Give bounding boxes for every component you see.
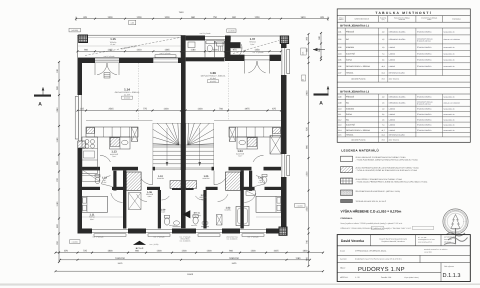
svg-text:1410: 1410 — [136, 48, 142, 51]
svg-text:Kreslil:: Kreslil: — [340, 250, 346, 253]
title block bottom row meritko — [340, 276, 419, 279]
svg-text:41,7m²: 41,7m² — [124, 93, 130, 96]
door arc bedroom 1.13 — [244, 193, 256, 203]
svg-text:(±0,000): (±0,000) — [124, 97, 131, 100]
WC 1.12 wall vertical left unit — [113, 171, 116, 191]
svg-text:1,9: 1,9 — [382, 46, 384, 49]
north block top wall seg2 — [225, 36, 231, 41]
svg-text:1250: 1250 — [254, 16, 260, 19]
room label 1.13 kuchyne — [110, 151, 119, 159]
svg-text:1.14: 1.14 — [124, 88, 130, 92]
outer wall left lower — [78, 148, 83, 234]
table row 1.02 — [337, 35, 470, 44]
table header row — [337, 16, 470, 23]
entry door arc room 1.07 — [231, 44, 242, 58]
svg-text:1180: 1180 — [191, 48, 197, 51]
svg-text:A: A — [319, 100, 323, 106]
svg-text:CELKEM PLOCHA: CELKEM PLOCHA — [351, 78, 366, 81]
svg-text:1 : 50: 1 : 50 — [355, 276, 360, 279]
interior wall right stub — [212, 167, 215, 171]
room label 1.06 obyvaci pokoj — [201, 71, 226, 83]
table row celkem plocha — [337, 76, 470, 83]
toilet small right unit wc — [262, 174, 267, 183]
svg-text:(±0,000): (±0,000) — [71, 29, 78, 32]
svg-text:1500: 1500 — [107, 16, 113, 19]
svg-text:225: 225 — [302, 52, 305, 55]
svg-text:BYTOVÁ JEDNOTKA č.1: BYTOVÁ JEDNOTKA č.1 — [340, 23, 370, 27]
north block top wall seg1 — [186, 36, 205, 41]
table row 1.03 — [337, 44, 470, 51]
main top wall right unit seg2 — [270, 55, 282, 61]
washer right unit — [217, 215, 223, 226]
room label 1.10 chodba — [157, 175, 165, 180]
svg-text:1,5: 1,5 — [382, 38, 384, 41]
svg-text:1975: 1975 — [244, 108, 250, 111]
party wall center — [181, 35, 186, 228]
table row 1.06 — [337, 63, 470, 70]
outer wall left upper — [78, 58, 83, 95]
svg-text:- TYČNA S ODOLNĚJŠÍ, ZDĚNÉ NA: - TYČNA S ODOLNĚJŠÍ, ZDĚNÉ NA TENKOVRSTV… — [356, 169, 418, 172]
shaft hatched under stair right — [186, 181, 197, 189]
sill label bottom 4 — [226, 235, 239, 240]
svg-text:1420: 1420 — [163, 108, 169, 111]
closets along left wall — [82, 170, 99, 182]
table gap row — [337, 86, 470, 88]
svg-text:PŘEDSÍŇ: PŘEDSÍŇ — [346, 96, 355, 99]
svg-text:LINOLEUM čes.: LINOLEUM čes. — [226, 235, 239, 238]
toilet left bath — [164, 216, 169, 226]
bathtub right unit 1.03 — [236, 207, 249, 226]
door arc kitchen left — [100, 155, 110, 162]
svg-text:1485: 1485 — [107, 48, 113, 51]
bottom wall seg1 — [78, 229, 93, 234]
door arc bottom hall left — [137, 194, 147, 201]
svg-text:1200: 1200 — [181, 250, 187, 253]
dimension chain bottom 3 — [55, 270, 325, 276]
svg-text:1.05: 1.05 — [204, 175, 209, 178]
svg-text:1810: 1810 — [300, 16, 306, 19]
table row 1.07 — [337, 69, 470, 75]
dimension chain bottom 1 — [55, 250, 325, 254]
dashed beam vertical 1.06 — [228, 63, 230, 121]
level mark +0,020 porch — [227, 29, 236, 33]
svg-text:7,4: 7,4 — [382, 52, 384, 55]
bottom wall seg3 center — [172, 229, 196, 234]
svg-text:ŠATNA: ŠATNA — [346, 59, 353, 62]
roof overhang dashed line left — [85, 38, 180, 56]
outer wall right window upper — [282, 48, 290, 75]
svg-text:LEGENDA MATERIÁLŮ: LEGENDA MATERIÁLŮ — [341, 148, 379, 152]
svg-text:1.10: 1.10 — [338, 108, 342, 111]
wall bedroom divider right x241 — [240, 170, 243, 228]
svg-text:MĚŘÍTKO:: MĚŘÍTKO: — [340, 276, 349, 279]
svg-text:nad 1V přesah: nad 1V přesah — [200, 32, 211, 35]
svg-text:(-0,020): (-0,020) — [297, 204, 303, 207]
dimension chain upper second — [77, 48, 283, 52]
legend item bourane konstrukce — [341, 190, 401, 196]
svg-text:13,4m²: 13,4m² — [110, 43, 116, 46]
svg-text:1.05: 1.05 — [131, 22, 135, 25]
basin right bath — [201, 221, 209, 227]
bottom window left bedroom — [92, 229, 128, 236]
micro chain bottom interior right — [256, 216, 281, 218]
outer wall right seg2 — [281, 75, 287, 154]
wall bedroom divider left x124 — [123, 170, 126, 228]
svg-text:1.06: 1.06 — [210, 71, 216, 75]
svg-text:KOMORA: KOMORA — [346, 108, 355, 111]
room label 1.04 kuchyne — [236, 150, 245, 158]
room label 1.14 obyvaci pokoj — [115, 88, 140, 100]
svg-text:TEPELNÁ IZOLACE XPS 50, DL 20: TEPELNÁ IZOLACE XPS 50, DL 200 Ž — [356, 200, 387, 203]
svg-text:1,5m²: 1,5m² — [258, 181, 263, 184]
shaft hatched left unit — [126, 172, 141, 190]
top wall left unit seg1 — [78, 58, 96, 63]
kitchen counter right unit 1.04 — [229, 127, 281, 149]
svg-text:9,8m²: 9,8m² — [90, 218, 95, 221]
svg-text:1.09: 1.09 — [338, 102, 342, 105]
svg-text:- TYČNA TA1125, PŘESNÉ PŘÍČKY,: - TYČNA TA1125, PŘESNÉ PŘÍČKY, ZDĚNÉ NA … — [356, 180, 428, 183]
svg-text:1.07: 1.07 — [338, 71, 342, 74]
bottom wall seg4 — [222, 229, 240, 234]
room label 1.12 wc — [102, 177, 107, 184]
svg-text:1.01: 1.01 — [201, 194, 206, 197]
svg-text:PŘEDSÍŇ: PŘEDSÍŇ — [346, 30, 355, 33]
room label 1.03 koupelna — [225, 207, 232, 212]
outer wall right seg1 — [281, 44, 287, 49]
svg-text:1.06: 1.06 — [338, 65, 342, 68]
interior wall left unit y186 — [82, 187, 181, 190]
svg-text:1.13: 1.13 — [338, 124, 342, 127]
door arc hall left — [140, 171, 152, 185]
svg-text:7,4: 7,4 — [382, 124, 384, 127]
toilet right of party wall — [193, 215, 198, 224]
small rooms north block partitions — [186, 41, 225, 62]
table row 1.14 — [337, 127, 470, 132]
svg-text:ŠATNA: ŠATNA — [346, 113, 353, 116]
svg-text:BYTOVÁ JEDNOTKA č.2: BYTOVÁ JEDNOTKA č.2 — [340, 89, 370, 93]
table row 1.09 — [337, 99, 470, 106]
svg-text:OBÝVACÍ POKOJ + JÍDELNA: OBÝVACÍ POKOJ + JÍDELNA — [346, 65, 371, 68]
svg-text:1.03: 1.03 — [226, 207, 231, 210]
svg-text:(±0,000): (±0,000) — [210, 80, 217, 83]
entry triangle byt2 — [133, 241, 159, 250]
svg-text:1,5m²: 1,5m² — [102, 181, 107, 184]
legend item zdivo pricky — [341, 178, 428, 184]
svg-text:1300: 1300 — [250, 250, 256, 253]
svg-text:PUDORYS 1.NP: PUDORYS 1.NP — [358, 266, 405, 273]
level box bottom right — [295, 204, 306, 208]
svg-text:1025: 1025 — [273, 250, 279, 253]
svg-text:hor. 'V' přesah: hor. 'V' přesah — [248, 235, 259, 238]
outer wall left window — [75, 95, 81, 141]
bottom window 2 — [146, 229, 172, 236]
porch corner column hatched — [280, 36, 288, 44]
svg-text:1000: 1000 — [212, 48, 218, 51]
bed right bedroom 1.13 — [256, 196, 281, 212]
bottom wall seg5 — [266, 229, 279, 234]
svg-text:hor. 'V' přesah: hor. 'V' přesah — [180, 235, 191, 238]
section marker A left — [34, 87, 51, 108]
window top wall left unit — [153, 55, 178, 62]
svg-text:1800: 1800 — [107, 250, 113, 253]
scan artifact bottom streak — [0, 284, 480, 285]
interior wall left unit y166 — [82, 167, 138, 171]
svg-text:Nosný systém z tvárnic YTONG p: Nosný systém z tvárnic YTONG provádět př… — [341, 222, 403, 225]
room label 1.05 satna — [202, 175, 210, 180]
dimension chain bottom 2 — [59, 257, 311, 265]
level mark +0,000 terrace — [69, 28, 81, 32]
svg-text:13,4: 13,4 — [381, 71, 384, 74]
basin left bath — [173, 221, 181, 227]
svg-text:1000: 1000 — [164, 16, 170, 19]
svg-text:1250: 1250 — [254, 48, 260, 51]
table row 1.01 — [337, 28, 470, 35]
terrace corner column hatched — [79, 35, 88, 43]
double door opening living 1.06 — [245, 56, 270, 74]
dimension chain left vertical — [56, 61, 60, 263]
svg-text:2,6: 2,6 — [382, 59, 384, 62]
table row 1.11 — [337, 112, 470, 117]
title block frame — [337, 235, 470, 282]
svg-text:1300: 1300 — [306, 171, 309, 177]
interior wall right unit y166 — [229, 167, 282, 171]
svg-text:OBÝVACÍ POKOJ + JÍDELNA: OBÝVACÍ POKOJ + JÍDELNA — [346, 129, 371, 132]
svg-text:41,9m²: 41,9m² — [210, 77, 216, 80]
svg-text:7,4m²: 7,4m² — [112, 155, 117, 158]
svg-text:1365: 1365 — [164, 48, 170, 51]
title block mid firm text — [379, 237, 407, 243]
bottom wall seg2 — [128, 229, 146, 234]
title block contact text — [418, 236, 435, 244]
svg-text:1.08: 1.08 — [338, 96, 342, 99]
kitchen counter left unit 1.13 — [86, 127, 138, 149]
bottom-right corner column hatched — [279, 227, 287, 235]
outer wall right window lower — [282, 154, 290, 177]
room label 1.11 loznice — [89, 214, 95, 221]
porch edge line — [231, 35, 281, 37]
table row 1.15 — [337, 133, 470, 137]
svg-text:1.08: 1.08 — [147, 191, 152, 194]
svg-text:BYT č.1: BYT č.1 — [194, 211, 201, 214]
table row celkem plocha — [337, 137, 470, 142]
svg-text:VYPRACOVALA: VEVERKOVÁ DAGG.: VYPRACOVALA: VEVERKOVÁ DAGG. — [355, 250, 387, 253]
svg-text:14600: 14600 — [187, 273, 194, 276]
ceiling edge line living 1.14 — [86, 120, 153, 122]
interior wall right unit y186 — [186, 187, 281, 190]
svg-text:1.12: 1.12 — [338, 118, 342, 121]
french door opening top-left — [95, 59, 119, 62]
dimension chain right vertical — [301, 33, 310, 267]
wardrobe X left — [129, 193, 142, 210]
svg-text:1.03: 1.03 — [338, 46, 342, 49]
porch roof dashed — [233, 41, 279, 54]
svg-text:číslo výkresu: číslo výkresu — [444, 265, 454, 268]
svg-text:1520: 1520 — [306, 206, 309, 212]
porch entry wall horizontal — [231, 42, 241, 48]
title block vertical dividers — [371, 235, 442, 282]
north block window — [205, 36, 225, 43]
door arc hall right — [214, 171, 226, 185]
WC 1.02 wall vertical right unit — [249, 171, 252, 191]
table row 1.08 — [337, 94, 470, 99]
table row 1.10 — [337, 106, 470, 111]
title block row zakazka — [340, 258, 402, 261]
svg-text:Projektová kancelář, Nerudova: Projektová kancelář, Nerudova — [381, 240, 404, 243]
door arc WC 1.12 — [101, 176, 112, 187]
level mark box on top chain — [129, 20, 136, 25]
svg-text:41,7: 41,7 — [381, 129, 384, 132]
svg-text:(-0,020): (-0,020) — [228, 30, 235, 33]
wall bath divider right x204 — [203, 190, 206, 229]
svg-text:A: A — [38, 102, 42, 108]
svg-text:David Veverka: David Veverka — [341, 239, 364, 243]
svg-text:nad 'V' přesah: nad 'V' přesah — [104, 55, 115, 58]
svg-text:VÝŠKA HŘEBENE C.D ±1,010 = 8,: VÝŠKA HŘEBENE C.D ±1,010 = 8,170m — [341, 209, 402, 213]
top wall left unit seg3 — [178, 58, 182, 63]
table row 1.04 — [337, 51, 470, 57]
bed left bedroom 1.11 — [82, 196, 108, 212]
terrace 1.15 outline — [78, 35, 182, 57]
svg-text:1.11: 1.11 — [338, 113, 341, 116]
svg-text:hor. 'V' přesah: hor. 'V' přesah — [154, 235, 165, 238]
svg-text:1140: 1140 — [56, 137, 59, 143]
svg-text:1.01: 1.01 — [338, 30, 342, 33]
room label 1.01 predsin — [199, 194, 207, 201]
svg-text:nad 'V' přesah: nad 'V' přesah — [160, 52, 171, 55]
svg-text:KUCHYNĚ: KUCHYNĚ — [346, 124, 356, 127]
north block side wall — [225, 41, 231, 59]
svg-text:1.02: 1.02 — [338, 38, 342, 41]
svg-text:hor. 'V' přesah: hor. 'V' přesah — [93, 235, 104, 238]
room label 1.15 terasa — [110, 37, 118, 46]
svg-text:1420: 1420 — [197, 108, 203, 111]
level box bottom left — [70, 240, 81, 244]
svg-text:TABULKA MÍSTNOSTÍ: TABULKA MÍSTNOSTÍ — [375, 11, 432, 15]
svg-text:1180: 1180 — [296, 257, 302, 260]
note poznamka line2 — [341, 226, 434, 230]
svg-text:1,5: 1,5 — [382, 118, 384, 121]
svg-text:1.14: 1.14 — [338, 129, 342, 132]
tall unit fridge right — [270, 136, 281, 155]
svg-text:13,4: 13,4 — [381, 134, 384, 137]
svg-text:1300: 1300 — [206, 250, 212, 253]
basin left unit wc 1.12 — [95, 175, 100, 184]
svg-text:Název:: Název: — [340, 267, 346, 270]
stamp circular — [443, 209, 468, 245]
svg-text:1,9: 1,9 — [382, 108, 384, 111]
svg-text:2400: 2400 — [306, 90, 309, 96]
svg-text:41,9: 41,9 — [381, 65, 384, 68]
svg-text:90: 90 — [302, 79, 305, 81]
door arc bath right — [195, 196, 203, 200]
svg-text:1,5: 1,5 — [382, 102, 384, 105]
door arc bath left — [162, 196, 170, 200]
svg-text:POZNÁMKA:: POZNÁMKA: — [341, 217, 354, 220]
sill label bottom 3 — [180, 235, 191, 242]
svg-text:5,6m²: 5,6m² — [250, 43, 255, 46]
legend item zdivo vnitrni nosne — [341, 166, 420, 172]
svg-text:Formát: 2 A4: Formát: 2 A4 — [381, 276, 391, 279]
svg-text:D.1.1.3: D.1.1.3 — [443, 273, 461, 279]
door arc bottom hall right — [218, 194, 228, 201]
svg-text:1240: 1240 — [56, 107, 59, 113]
ceiling edge line living 1.06 — [214, 120, 281, 122]
svg-text:4,9: 4,9 — [382, 96, 384, 99]
svg-text:1160: 1160 — [56, 201, 59, 207]
shaft hatched right unit — [226, 172, 241, 190]
svg-text:5280/150: 5280/150 — [229, 257, 239, 260]
bottom window right bedroom — [240, 229, 266, 236]
svg-text:1200: 1200 — [136, 16, 142, 19]
micro chain bottom interior left — [82, 216, 123, 218]
svg-text:7,4m²: 7,4m² — [238, 155, 243, 158]
svg-text:CELKEM PLOCHA: CELKEM PLOCHA — [351, 138, 366, 141]
svg-text:TERASA: TERASA — [346, 134, 354, 137]
svg-text:1.10: 1.10 — [158, 175, 163, 178]
interior wall left stub — [153, 167, 156, 171]
room label 1.02 wc — [258, 177, 263, 184]
table TABULKA MISTNOSTI frame — [337, 9, 470, 142]
entrance arrow top right — [313, 48, 325, 51]
entry triangle byt1 side — [183, 210, 202, 218]
kitchen leg along left wall with stove — [82, 137, 98, 174]
svg-text:2,6: 2,6 — [382, 113, 384, 116]
svg-text:1830: 1830 — [302, 250, 308, 253]
svg-text:KOMORA: KOMORA — [346, 46, 355, 49]
dimension chain top — [75, 11, 329, 21]
svg-text:1.15: 1.15 — [338, 134, 342, 137]
svg-text:2545: 2545 — [108, 108, 114, 111]
room label 1.09 koupelna — [161, 209, 166, 214]
title block right corner text — [444, 236, 457, 244]
dashed beam vertical 1.14 — [138, 63, 140, 121]
svg-text:ŽELEZOBETONOVÉ KONSTRUKCE - (B: ŽELEZOBETONOVÉ KONSTRUKCE - (BETON C 16/… — [356, 190, 401, 193]
table row 1.05 — [337, 57, 470, 63]
wall bath divider left x158 — [158, 190, 161, 229]
dimension chain interior left unit — [77, 108, 183, 112]
svg-text:1.09: 1.09 — [161, 209, 166, 212]
title block row kreslil — [340, 248, 448, 253]
door arc WC 1.02 — [255, 176, 266, 187]
room label 1.07 zadveri — [249, 37, 257, 46]
room label 1.08 predsin — [146, 191, 154, 198]
top wall left unit seg2 — [119, 58, 153, 63]
outer wall right seg3 — [281, 177, 287, 234]
table subheader BYTOVÁ JEDNOTKA č.2 — [337, 89, 470, 94]
svg-text:4,9: 4,9 — [382, 30, 384, 33]
svg-text:- TYČNA PODKRANNÉ, ZDĚNÉ NA TE: - TYČNA PODKRANNÉ, ZDĚNÉ NA TENKOVRSTVOU… — [356, 159, 419, 162]
door arc bedroom 1.11 — [111, 193, 123, 203]
door swing arcs french doors living 1.14 — [95, 63, 119, 78]
legend item tepelna izolace — [341, 199, 387, 203]
table row 1.12 — [337, 117, 470, 122]
wardrobe X right — [246, 191, 256, 196]
svg-text:1.04: 1.04 — [338, 52, 342, 55]
svg-text:TERASA: TERASA — [346, 71, 354, 74]
legend item zdivo obvodove — [341, 156, 419, 162]
svg-text:KUCHYNĚ: KUCHYNĚ — [346, 52, 356, 55]
svg-text:BYT č.2: BYT č.2 — [136, 247, 144, 250]
table row 1.13 — [337, 122, 470, 127]
section marker A right — [314, 86, 330, 107]
left wall pier hatched — [78, 141, 85, 148]
svg-text:5160/150: 5160/150 — [115, 257, 125, 260]
shaft hatched under stair left — [170, 181, 181, 189]
svg-text:7550: 7550 — [179, 11, 185, 14]
door arc kitchen right — [253, 155, 263, 162]
svg-text:1.07: 1.07 — [250, 37, 256, 41]
table subheader BYTOVÁ JEDNOTKA č.1 — [337, 23, 470, 28]
